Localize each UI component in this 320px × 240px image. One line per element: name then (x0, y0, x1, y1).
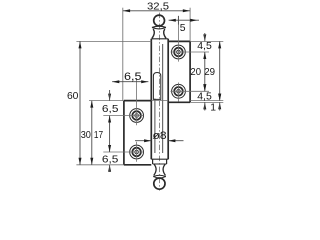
extension line lower plate bottom to left (60 / 30) (76, 164, 124, 166)
dimension o8 line left (135, 140, 151, 142)
dimension 5 line (169, 19, 199, 21)
svg-text:6,5: 6,5 (124, 71, 142, 83)
dimension 6,5 horizontal left arrow (112, 80, 119, 83)
dimension 20 bottom arrow (203, 84, 206, 91)
lower hole 2 vertical center line (136, 142, 138, 162)
lower leaf plate left edge (123, 101, 125, 165)
dimension 29 top arrow (218, 41, 221, 48)
upper hole 1 vertical center line (177, 16, 179, 62)
lower leaf plate bottom edge (124, 164, 151, 166)
svg-text:6,5: 6,5 (102, 154, 119, 165)
dimension 20 line (204, 52, 206, 91)
top finial collar arcs (152, 26, 166, 27)
dimension 32,5 right arrow (183, 9, 190, 12)
dimension 17 line (109, 116, 111, 153)
barrel center line (159, 13, 161, 191)
bottom finial collar bottom edge (153, 163, 167, 165)
svg-text:4,5: 4,5 (197, 41, 212, 52)
extension line lower hole 2 center line horizontal (103, 151, 143, 153)
dimension 4,5 top arrows (203, 34, 206, 41)
dimension 30 top arrow (90, 101, 93, 108)
dimension 32,5 left arrow (123, 9, 130, 12)
lower hole 1 vertical center line (136, 78, 138, 125)
dimension 6,5 horizontal line (112, 81, 148, 83)
dimension 5 tick at hole center (177, 16, 179, 25)
dimension 4,5 bottom arrows (203, 84, 206, 91)
dimension 60 top arrow (79, 41, 82, 48)
dimension 30 line (91, 101, 93, 165)
dimension o8 left arrow (144, 139, 151, 142)
top finial neck right side (164, 29, 166, 38)
barrel right edge (167, 39, 169, 159)
dimension 5 left outward arrow (169, 19, 176, 22)
dimension 20 top arrow (203, 52, 206, 59)
extension line lower plate top to right (1) (151, 100, 168, 102)
barrel inner line right (162, 44, 164, 153)
dimension 17 top arrow (108, 116, 111, 123)
dimension 6,5 upper-left arrows (108, 94, 111, 101)
bottom finial flange arcs (153, 175, 166, 176)
top finial ball (154, 15, 165, 26)
svg-text:30: 30 (81, 130, 91, 141)
svg-text:6,5: 6,5 (102, 104, 119, 115)
dimension 29 line (219, 41, 221, 100)
lower plate screw hole 2 (130, 145, 144, 159)
dimension 32,5 line (123, 10, 190, 12)
svg-text:17: 17 (94, 130, 103, 141)
dimension 5 right outward arrow (190, 19, 197, 22)
svg-text:20: 20 (190, 67, 201, 78)
upper leaf plate right edge (189, 41, 191, 102)
svg-text:32,5: 32,5 (147, 1, 169, 12)
lower plate screw hole 1 (130, 109, 144, 123)
extension line from lower plate left edge (32,5 / 6,5) (122, 8, 124, 101)
extension line plate top to right (4,5 / 29) (190, 40, 223, 42)
dimension o8 line right (168, 140, 183, 142)
extension line upper plate bottom to right (1 / 29) (190, 101, 223, 103)
upper leaf plate top edge (168, 40, 190, 42)
dimension 6,5 lower-left arrows (108, 165, 111, 172)
svg-text:60: 60 (67, 91, 79, 102)
svg-text:ø8: ø8 (153, 130, 167, 142)
bottom finial neck right side (163, 164, 165, 175)
extension line plate top to left (60) (76, 40, 151, 42)
lower leaf plate top edge (124, 100, 151, 102)
extension line from upper plate right edge (32,5 / 5) (189, 8, 191, 42)
bottom finial ball (154, 178, 165, 189)
svg-text:5: 5 (180, 23, 186, 34)
dimension 6,5 horizontal right arrow (141, 80, 148, 83)
dimension 30 bottom arrow (90, 158, 93, 165)
dimension 60 bottom arrow (79, 158, 82, 165)
barrel inner line left (154, 99, 156, 154)
dimension o8 right arrow (168, 139, 175, 142)
upper hole 2 vertical center line (178, 83, 180, 102)
bottom finial collar sides (152, 159, 154, 164)
extension line upper hole 2 center to right (171, 90, 210, 92)
dimension 1 arrows (218, 94, 221, 101)
upper leaf plate bottom edge (168, 101, 190, 103)
extension line upper hole 1 center to right (171, 51, 210, 53)
dimension 29 bottom arrow (218, 94, 221, 101)
barrel top edge (151, 38, 168, 40)
svg-text:1: 1 (210, 102, 216, 113)
screw slot in barrel (153, 73, 160, 100)
dimension 17 bottom arrow (108, 145, 111, 152)
extension line lower hole 1 center line horizontal (103, 115, 143, 117)
top finial neck left side (152, 29, 154, 38)
svg-text:29: 29 (204, 67, 215, 78)
barrel bottom step edge (151, 158, 168, 160)
upper plate screw hole 1 (172, 45, 186, 59)
bottom finial neck left side (154, 164, 156, 175)
extension line lower plate top to left (30) (89, 100, 124, 102)
svg-text:4,5: 4,5 (197, 91, 212, 102)
dimension 60 line (79, 41, 81, 164)
barrel left edge (150, 39, 152, 159)
upper plate screw hole 2 (172, 84, 186, 98)
